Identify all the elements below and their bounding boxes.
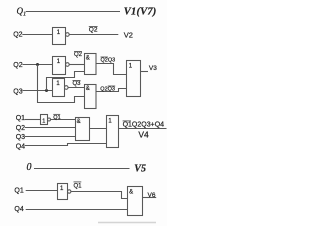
wire Q1 to inverter U5 [26, 190, 58, 192]
wire A2 output to OR O1 [96, 89, 127, 92]
svg-text:Q1Q2Q3+Q4: Q1Q2Q3+Q4 [123, 122, 165, 129]
net label Q2-bar [89, 27, 98, 34]
wire inverter output to V2 [69, 34, 118, 36]
node V6 output label [148, 192, 156, 199]
svg-text:Q3: Q3 [73, 81, 82, 87]
svg-text:1: 1 [57, 30, 61, 36]
OR gate O1 (V3) [127, 61, 141, 97]
inverter U2 (NOT gate, top of V3) [53, 57, 66, 75]
wire A4 output to V6 [143, 197, 157, 199]
wire U2 output to AND A1 [69, 64, 85, 66]
svg-text:1: 1 [129, 63, 133, 69]
AND gate A2 (bottom, V3) [85, 85, 97, 109]
node Q3 (input label, row V3) [13, 88, 22, 95]
svg-text:&: & [86, 55, 90, 61]
svg-text:1: 1 [42, 118, 45, 124]
node Q2 (input label, row V4) [16, 125, 25, 132]
wire O2 output (V4 expression line) [119, 128, 167, 130]
svg-text:V1(V7): V1(V7) [124, 7, 157, 18]
inversion bubble U1 [66, 33, 70, 37]
svg-text:V5: V5 [134, 163, 146, 174]
svg-text:V2: V2 [124, 31, 133, 40]
svg-text:0: 0 [27, 162, 32, 173]
junction dot on Q3 wire [45, 89, 48, 92]
node 0 (constant zero, row V5) [27, 162, 32, 173]
svg-text:V3: V3 [149, 65, 157, 72]
inverter U3 (NOT gate, bottom of V3) [53, 79, 65, 97]
AND gate A4 (V6) [128, 187, 143, 216]
node V3 output label [149, 65, 157, 72]
node Q4 (input label, row V6) [14, 206, 23, 213]
svg-text:Q1: Q1 [74, 184, 83, 190]
svg-text:Q4: Q4 [14, 206, 23, 213]
wire Q4 to AND A4 [26, 209, 128, 211]
net label Q2 Q3-bar [100, 86, 115, 92]
svg-text:&: & [86, 86, 90, 92]
svg-text:Q2: Q2 [13, 31, 22, 38]
inverter U5 (NOT gate, V6) [58, 184, 68, 200]
svg-text:1: 1 [56, 81, 60, 87]
svg-text:Q2Q3: Q2Q3 [101, 58, 116, 64]
svg-text:1: 1 [57, 59, 61, 65]
svg-text:V6: V6 [148, 192, 156, 199]
wire U3 output to AND A2 [68, 87, 85, 89]
junction dot on Q2 wire [36, 63, 39, 66]
wire Q3 branch riser to AND A1 second input [47, 72, 85, 91]
svg-text:1: 1 [108, 118, 112, 124]
svg-text:Q1: Q1 [14, 188, 23, 195]
svg-text:&: & [77, 119, 81, 125]
wire A1 output to OR O1 [96, 64, 127, 75]
svg-text:V4: V4 [138, 130, 149, 140]
wire A3 output to OR O2 [90, 128, 107, 130]
node Q1 (input label, row V6) [14, 188, 23, 195]
AND gate A1 (top, V3) [85, 54, 97, 75]
inverter U4 (small NOT gate, V4) [41, 115, 48, 125]
wire U4 output to AND A3 [51, 119, 76, 121]
wire Q2 to inverter [22, 34, 52, 36]
inversion bubble U2 [66, 63, 70, 67]
svg-text:Q2: Q2 [89, 27, 98, 34]
inversion bubble U3 [65, 86, 69, 90]
wire Q1 to V1 [26, 11, 120, 13]
wire Q2 to AND A3 [25, 127, 76, 129]
inversion bubble U4 [48, 118, 51, 121]
svg-text:Q1: Q1 [16, 115, 25, 122]
wire Q2 to inverter U2 [22, 64, 52, 66]
svg-text:Q4: Q4 [16, 143, 25, 150]
node Q2 (input label, row V2) [13, 31, 22, 38]
node V2 output label [124, 31, 133, 40]
node Q1 (input label, row V1) [17, 6, 27, 17]
svg-text:1: 1 [60, 186, 64, 192]
wire O1 output to V3 [141, 71, 149, 73]
node Q3 (input label, row V4) [16, 134, 25, 141]
OR gate O2 (V4) [107, 116, 119, 148]
net label Q2-bar (above wire) [74, 52, 83, 58]
inverter U1 (NOT gate, row V2) [53, 28, 66, 45]
svg-text:Q2: Q2 [13, 62, 22, 69]
node Q2 (input label, row V3) [13, 62, 22, 69]
wire Q3 to inverter U3 [22, 90, 52, 92]
wire Q1 to inverter U4 [25, 119, 41, 121]
node Q1 (input label, row V4) [16, 115, 25, 122]
node Q4 (input label, row V4) [16, 143, 25, 150]
svg-text:Q3: Q3 [16, 134, 25, 141]
scan artifact smudge (bottom) [98, 222, 156, 224]
wire 0 to V5 [34, 168, 130, 170]
svg-text:Q1: Q1 [17, 6, 27, 17]
net label Q3-bar (above wire) [73, 81, 82, 87]
node V5 output label [134, 163, 146, 174]
node V4 output label [138, 130, 149, 140]
svg-text:Q2Q3: Q2Q3 [100, 86, 115, 92]
svg-text:Q3: Q3 [13, 88, 22, 95]
AND gate A3 (V4) [76, 118, 90, 141]
wire Q3 to AND A3 [25, 136, 76, 138]
svg-text:Q1: Q1 [53, 115, 60, 121]
node V1(V7) output label [124, 7, 157, 18]
svg-text:&: & [129, 190, 133, 196]
wire U5 output to AND A4 (with jog down) [71, 192, 128, 199]
wire Q2 branch riser to AND A2 second input [38, 65, 85, 103]
svg-text:Q2: Q2 [16, 125, 25, 132]
net label Q1-bar Q2Q3+Q4 [123, 122, 165, 129]
svg-text:Q2: Q2 [74, 52, 83, 58]
net label Q1-bar [74, 184, 83, 190]
net label Q2-bar Q3 [101, 58, 116, 64]
net label Q1-bar [53, 115, 60, 121]
wire Q4 to OR O2 (with jog up) [25, 144, 107, 146]
inversion bubble U5 [68, 190, 71, 193]
